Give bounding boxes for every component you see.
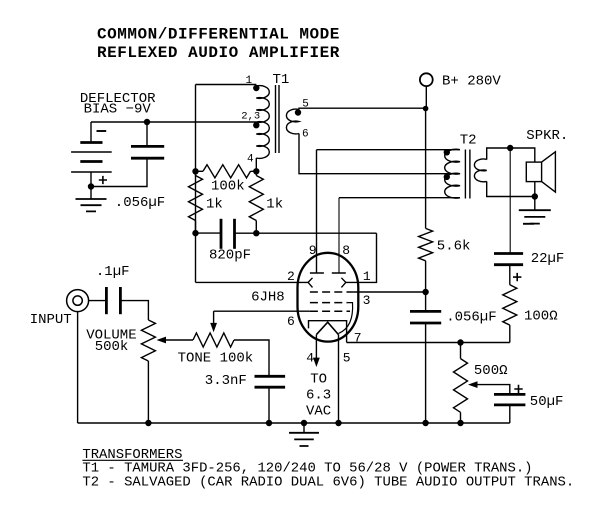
svg-text:.056µF: .056µF <box>115 195 165 211</box>
wire speaker junction down to 22uF <box>509 148 511 254</box>
transformer T1 primary winding <box>256 86 269 159</box>
wire T2 secondary bottom to speaker <box>487 181 535 196</box>
svg-text:6: 6 <box>287 314 295 329</box>
svg-text:7: 7 <box>354 331 362 346</box>
wire 3.3nF to ground rail <box>268 387 270 423</box>
volume wiper arrow <box>157 337 167 344</box>
svg-text:500Ω: 500Ω <box>474 363 508 379</box>
wire T2 primary bottom to tube pin 8 <box>339 197 460 199</box>
resistor 1k left <box>189 176 203 221</box>
grid row 1 (pin 3) <box>310 291 354 293</box>
wire tube pin 8 plate lead <box>338 198 340 273</box>
potentiometer VOLUME 500k <box>141 320 155 361</box>
resistor 100 ohm <box>509 265 511 285</box>
wire speaker bottom to ground <box>534 197 536 211</box>
node battery plus junction <box>88 183 94 189</box>
minus sign 22uF <box>523 223 534 225</box>
node pin5 ground <box>335 420 341 426</box>
svg-text:2,3: 2,3 <box>241 110 260 122</box>
potentiometer TONE 100k <box>193 333 234 347</box>
wire left bus vertical <box>195 85 197 283</box>
plus sign 22uF <box>513 273 521 281</box>
wire 5.6k to junction <box>425 261 427 292</box>
capacitor C1 .056uF <box>131 145 164 148</box>
capacitor 820pF <box>196 232 222 234</box>
resistor 100k <box>196 170 204 172</box>
battery plus sign <box>99 176 107 184</box>
500 ohm wiper arrow <box>468 381 478 388</box>
battery B1 -9V <box>90 122 92 143</box>
svg-text:TONE 100k: TONE 100k <box>178 351 254 367</box>
svg-text:22µF: 22µF <box>531 251 565 267</box>
node 3.3nF ground <box>266 420 272 426</box>
node T2 primary top phase dot <box>444 149 450 155</box>
node B+ junction <box>423 106 429 112</box>
node pin3/5.6k/.056 junction <box>422 289 428 295</box>
ground symbol on rail <box>303 423 305 433</box>
node bias junction <box>144 119 150 125</box>
svg-text:50µF: 50µF <box>530 394 564 410</box>
wire T1 pin5 to B+ <box>299 108 426 109</box>
node .056uF ground <box>422 420 428 426</box>
wire tone right to 3.3nF <box>234 340 269 376</box>
wire B+ down to 5.6k <box>425 109 427 229</box>
wire T1 pin 4 lead <box>255 158 257 171</box>
grid row 2 <box>310 302 348 304</box>
node 820pF right <box>253 230 259 236</box>
svg-text:2: 2 <box>287 269 295 284</box>
transformer T1 core <box>276 85 280 153</box>
tone wiper arrow to tube pin 6 <box>213 311 215 323</box>
node 100k right / T1 pin4 <box>253 168 259 174</box>
wire 100 ohm to pin7 rail <box>509 325 511 342</box>
tube U1 6JH8 envelope <box>298 253 359 342</box>
transformer T2 core <box>465 150 470 199</box>
speaker LS1 <box>526 162 541 182</box>
wire tube pin 9 plate lead <box>316 150 318 273</box>
svg-text:1: 1 <box>246 75 253 87</box>
node 500 ohm ground <box>457 420 463 426</box>
node 500 ohm top junction <box>457 339 463 345</box>
capacitor 3.3nF <box>255 375 286 378</box>
wire bias rail to T1 tap 2,3 <box>91 121 256 123</box>
node volume ground <box>145 420 151 426</box>
node T1 pin 1 <box>253 85 259 91</box>
capacitor 22uF <box>494 252 523 255</box>
input jack J1 <box>67 290 89 312</box>
svg-text:1k: 1k <box>206 197 223 213</box>
cathode (pin 7) <box>309 321 347 343</box>
wire T2 primary top to tube pin 9 <box>317 149 461 151</box>
node T2 primary mid phase dot <box>444 174 450 180</box>
potentiometer 500 ohm <box>460 343 462 359</box>
svg-text:8: 8 <box>342 243 350 258</box>
wire ground rail <box>78 422 510 424</box>
wire T1 pin1 feed <box>196 84 257 86</box>
wire .1uF to volume pot <box>120 301 148 320</box>
terminal B+ 280V <box>420 73 433 86</box>
node 820pF left <box>192 230 198 236</box>
svg-text:4: 4 <box>247 154 254 166</box>
node speaker bottom junction <box>532 193 538 199</box>
wire tube pin1 riser <box>346 233 377 282</box>
svg-text:.056µF: .056µF <box>446 309 496 325</box>
wire pin 4 heater lead with arrow <box>315 335 317 359</box>
node T1 tap 2,3 <box>253 122 259 128</box>
ground under battery <box>76 199 107 211</box>
svg-text:100Ω: 100Ω <box>524 309 558 325</box>
deflector right pin 1 <box>341 278 345 288</box>
wire speaker box to bottom junction <box>534 182 536 197</box>
svg-text:6.3: 6.3 <box>306 388 331 404</box>
wire 50uF to ground rail <box>509 405 511 423</box>
svg-text:9: 9 <box>309 243 317 258</box>
capacitor .1uF <box>105 287 108 314</box>
wire B+ stem <box>425 86 427 108</box>
svg-text:100k: 100k <box>211 179 245 195</box>
wire jack to .1uF <box>89 300 107 302</box>
ground under speaker <box>519 210 551 223</box>
grid row 2 curve to pin 5 <box>339 303 353 334</box>
svg-text:B+ 280V: B+ 280V <box>442 73 501 89</box>
svg-text:6JH8: 6JH8 <box>251 289 285 305</box>
deflector left pin 2 <box>308 278 312 288</box>
svg-text:820pF: 820pF <box>209 247 251 263</box>
svg-text:T1: T1 <box>273 72 290 88</box>
wire battery plus to C1 <box>91 158 147 186</box>
battery minus sign <box>97 130 107 132</box>
wire T2 secondary top to speaker <box>487 148 535 162</box>
svg-text:SPKR.: SPKR. <box>526 128 568 144</box>
svg-text:4: 4 <box>306 351 314 366</box>
svg-text:1k: 1k <box>266 197 283 213</box>
capacitor .056uF (cathode bypass) <box>425 292 427 311</box>
svg-text:VAC: VAC <box>306 404 331 420</box>
svg-text:3.3nF: 3.3nF <box>205 373 247 389</box>
svg-text:INPUT: INPUT <box>30 312 72 328</box>
transformer T2 primary winding <box>445 149 460 198</box>
svg-text:T2: T2 <box>460 132 477 148</box>
grid row 3 (pin 6) <box>310 310 350 312</box>
resistor 5.6k <box>419 228 433 260</box>
svg-text:REFLEXED AUDIO AMPLIFIER: REFLEXED AUDIO AMPLIFIER <box>97 44 340 62</box>
wire pin 7 to 100 ohm / 500 ohm <box>347 342 510 344</box>
plus sign 50uF <box>514 385 522 393</box>
transformer T2 secondary winding <box>474 159 486 182</box>
resistor 1k right <box>249 176 263 221</box>
wire jack sleeve to ground rail <box>77 312 79 423</box>
wire T1 pin6 to T2 center tap <box>299 134 460 174</box>
wire pin 5 heater to ground rail <box>338 335 340 423</box>
node T1 pin 5 <box>295 109 301 115</box>
svg-text:.1µF: .1µF <box>96 264 130 280</box>
svg-text:TO: TO <box>310 372 327 388</box>
svg-text:1: 1 <box>363 269 371 284</box>
node rail ground stub <box>301 420 307 426</box>
svg-text:6: 6 <box>302 128 309 140</box>
svg-text:5: 5 <box>343 351 351 366</box>
transformer T1 secondary winding <box>286 109 299 134</box>
svg-text:BIAS −9V: BIAS −9V <box>84 102 152 118</box>
svg-text:5.6k: 5.6k <box>437 239 471 255</box>
node 100k left <box>192 168 198 174</box>
wire tube pin2 feed <box>196 281 309 283</box>
node speaker top junction <box>507 145 513 151</box>
wire pin 3 to 5.6k junction <box>354 291 426 293</box>
heater filament <box>316 322 338 334</box>
svg-text:3: 3 <box>363 293 371 308</box>
svg-text:T2 - SALVAGED (CAR RADIO DUAL: T2 - SALVAGED (CAR RADIO DUAL 6V6) TUBE … <box>82 475 574 491</box>
svg-text:500k: 500k <box>95 339 129 355</box>
capacitor 50uF <box>494 393 525 396</box>
svg-text:COMMON/DIFFERENTIAL MODE: COMMON/DIFFERENTIAL MODE <box>97 26 340 44</box>
